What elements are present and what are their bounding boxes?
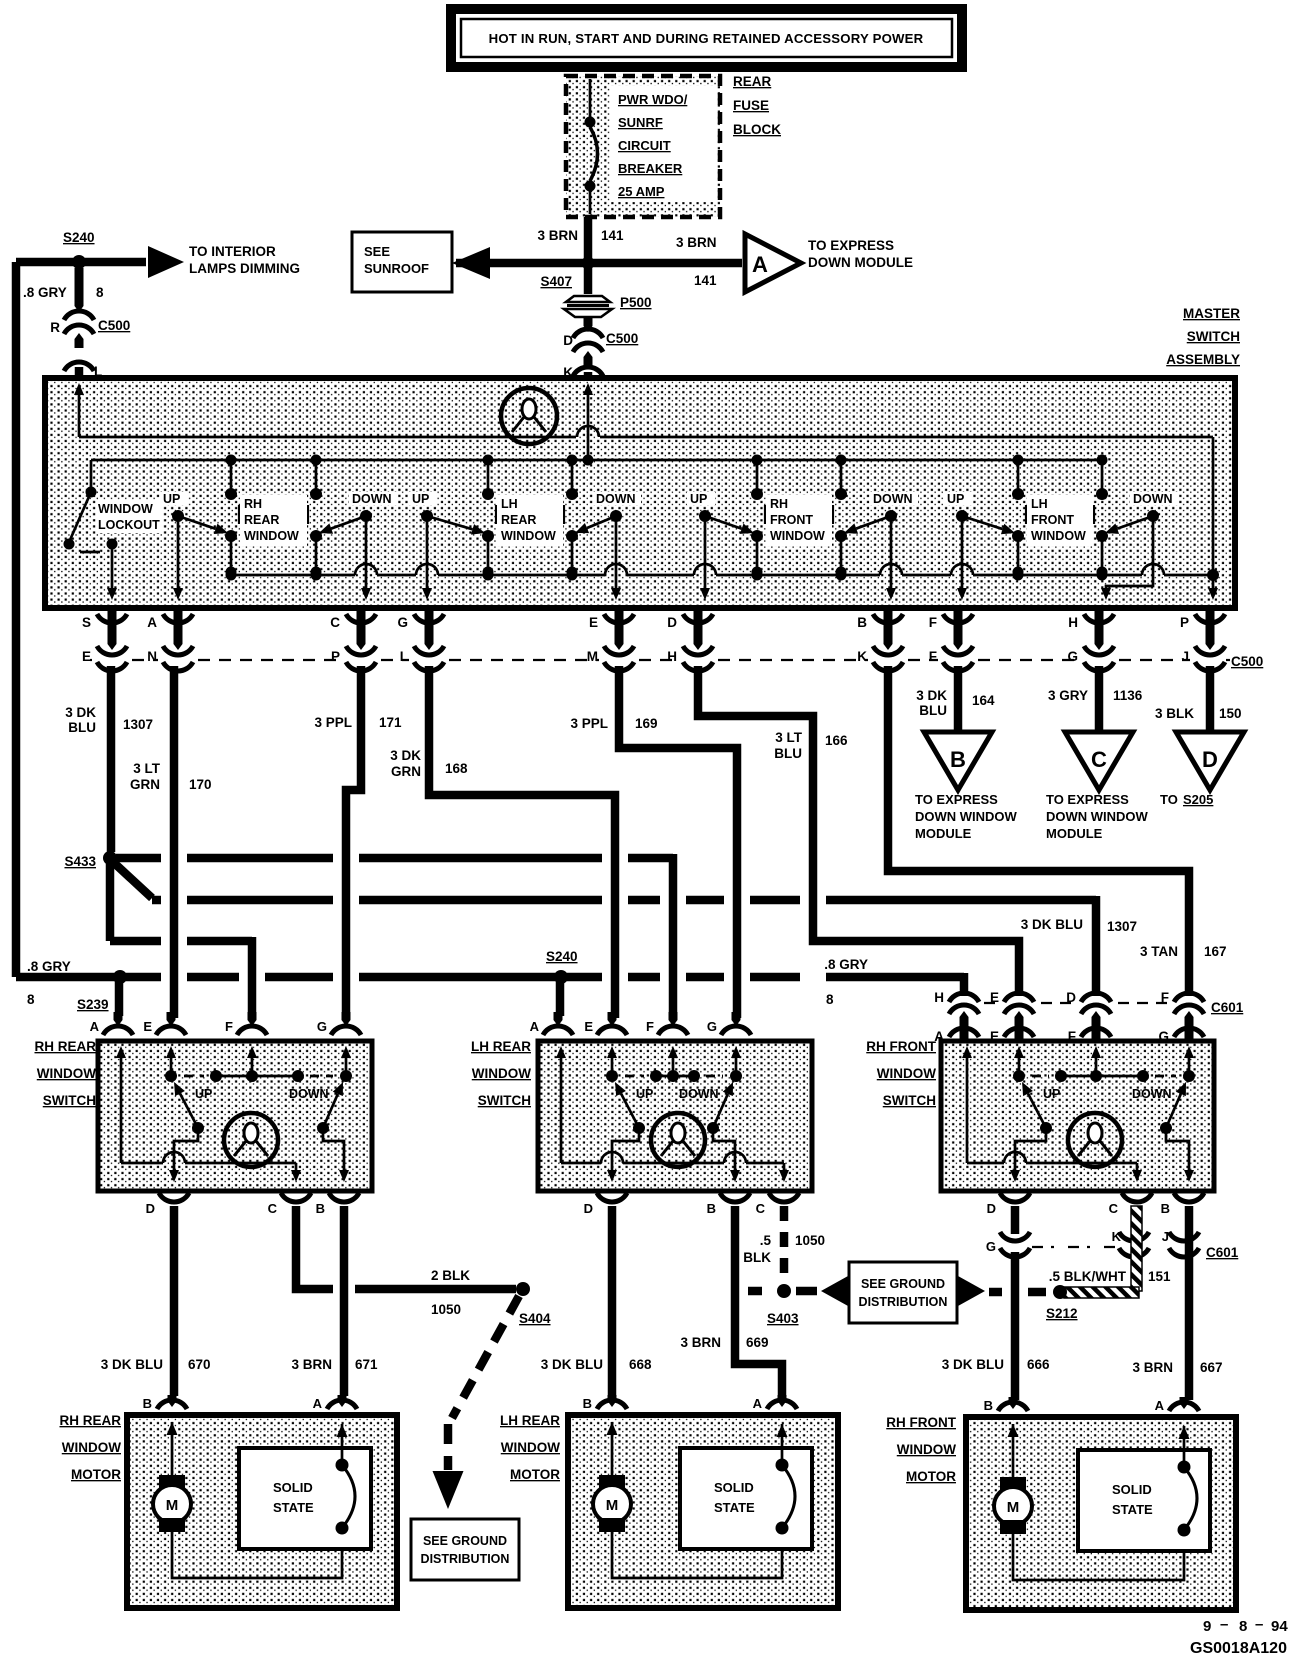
- svg-text:UP: UP: [636, 1087, 653, 1101]
- svg-text:668: 668: [629, 1357, 652, 1372]
- svg-text:3 PPL: 3 PPL: [314, 715, 352, 730]
- svg-text:E: E: [82, 649, 91, 664]
- connector triangle A: [745, 234, 801, 292]
- bus wire 4 (.8 gry ckt 8 illumination): [16, 973, 161, 982]
- svg-text:PWR WDO/: PWR WDO/: [618, 92, 688, 107]
- master switch internal: K entry wire: [587, 392, 590, 460]
- svg-text:RH: RH: [770, 497, 788, 511]
- svg-text:DOWN: DOWN: [596, 492, 636, 506]
- svg-text:3 BRN: 3 BRN: [680, 1335, 721, 1350]
- arrow to SEE SUNROOF: [452, 247, 490, 279]
- svg-text:P: P: [331, 649, 340, 664]
- svg-text:BLU: BLU: [68, 720, 96, 735]
- svg-text:S403: S403: [767, 1311, 799, 1326]
- illumination lamp master switch: [501, 388, 557, 444]
- svg-text:3 DK BLU: 3 DK BLU: [942, 1357, 1004, 1372]
- svg-text:3 DK BLU: 3 DK BLU: [1021, 917, 1083, 932]
- bus wire 3 (ckt 1307 to RH REAR switch F): [106, 862, 115, 941]
- svg-text:.8 GRY: .8 GRY: [23, 285, 67, 300]
- svg-text:3 BRN: 3 BRN: [537, 228, 578, 243]
- terminal A/N C500: [174, 610, 183, 650]
- master switch section: RH FRONT WINDOW switch: [756, 460, 759, 494]
- svg-text:MOTOR: MOTOR: [906, 1469, 956, 1484]
- svg-text:DISTRIBUTION: DISTRIBUTION: [859, 1295, 948, 1309]
- svg-text:P500: P500: [620, 295, 652, 310]
- svg-text:DOWN: DOWN: [679, 1087, 719, 1101]
- svg-text:B: B: [583, 1396, 592, 1411]
- LH REAR WINDOW solid state module: [680, 1448, 812, 1549]
- RH REAR WINDOW motor M symbol: [171, 1422, 174, 1475]
- svg-text:WINDOW: WINDOW: [244, 529, 299, 543]
- svg-text:S239: S239: [77, 997, 109, 1012]
- RH REAR WINDOW motor box: [127, 1415, 397, 1608]
- svg-text:D: D: [584, 1201, 593, 1216]
- svg-text:BREAKER: BREAKER: [618, 161, 683, 176]
- svg-text:S205: S205: [1183, 792, 1213, 807]
- svg-text:SOLID: SOLID: [714, 1480, 754, 1495]
- svg-text:3 BLK: 3 BLK: [1155, 706, 1194, 721]
- LH REAR D wire 668 dk blu: [608, 1206, 617, 1396]
- svg-text:SWITCH: SWITCH: [1187, 329, 1240, 344]
- svg-text:150: 150: [1219, 706, 1242, 721]
- svg-text:A: A: [1155, 1398, 1165, 1413]
- svg-text:E: E: [143, 1019, 152, 1034]
- svg-text:MOTOR: MOTOR: [510, 1467, 560, 1482]
- svg-text:3 BRN: 3 BRN: [676, 235, 717, 250]
- S404 dashed ground wire: [452, 1296, 519, 1418]
- terminal G/L C500: [425, 610, 434, 650]
- svg-text:D: D: [1066, 990, 1076, 1005]
- svg-text:RH: RH: [244, 497, 262, 511]
- svg-text:MODULE: MODULE: [915, 826, 972, 841]
- svg-text:UP: UP: [195, 1087, 212, 1101]
- svg-text:WINDOW: WINDOW: [770, 529, 825, 543]
- bus wire 1 (to LH REAR switch F): [116, 854, 161, 863]
- svg-text:3 DK: 3 DK: [390, 748, 421, 763]
- connector triangle C: [1065, 732, 1133, 790]
- svg-text:C: C: [1091, 747, 1107, 772]
- svg-text:B: B: [984, 1398, 993, 1413]
- svg-text:A: A: [752, 252, 768, 277]
- wire 167 tan from B: [888, 666, 1189, 996]
- svg-text:REAR: REAR: [733, 74, 772, 89]
- LH REAR C wire .5 BLK 1050 to S403: [780, 1206, 789, 1281]
- junction S407: [582, 257, 595, 270]
- svg-text:DOWN WINDOW: DOWN WINDOW: [915, 809, 1018, 824]
- svg-text:B: B: [1161, 1201, 1170, 1216]
- master switch assembly box: [45, 378, 1235, 608]
- wire 166 lt blu from D: [698, 666, 1019, 996]
- svg-text:LOCKOUT: LOCKOUT: [98, 518, 160, 532]
- svg-text:UP: UP: [1043, 1087, 1060, 1101]
- svg-text:H: H: [1068, 615, 1078, 630]
- svg-text:151: 151: [1148, 1269, 1171, 1284]
- svg-text:LAMPS DIMMING: LAMPS DIMMING: [189, 261, 300, 276]
- svg-text:D: D: [563, 333, 573, 348]
- wire 169 ppl from E: [619, 666, 737, 1018]
- svg-text:669: 669: [746, 1335, 769, 1350]
- svg-text:3 DK: 3 DK: [916, 688, 947, 703]
- RH FRONT WINDOW switch internals: [966, 1052, 969, 1163]
- C601 pin J: [1169, 1232, 1199, 1241]
- svg-text:DOWN MODULE: DOWN MODULE: [808, 255, 913, 270]
- long .8 gry wire left side: [12, 262, 21, 977]
- svg-text:DOWN: DOWN: [289, 1087, 329, 1101]
- svg-text:9: 9: [1203, 1618, 1211, 1635]
- svg-text:FRONT: FRONT: [770, 513, 813, 527]
- svg-text:RH FRONT: RH FRONT: [886, 1415, 956, 1430]
- wire 141 brn from breaker: [584, 217, 593, 263]
- svg-text:1307: 1307: [1107, 919, 1137, 934]
- svg-text:G: G: [397, 615, 408, 630]
- svg-text:TO: TO: [1160, 792, 1178, 807]
- svg-text:REAR: REAR: [244, 513, 279, 527]
- RH FRONT WINDOW terminal A: [1180, 1397, 1189, 1409]
- svg-text:WINDOW: WINDOW: [501, 1440, 560, 1455]
- svg-text:K: K: [1112, 1229, 1122, 1244]
- svg-text:S404: S404: [519, 1311, 551, 1326]
- svg-text:RH REAR: RH REAR: [34, 1039, 96, 1054]
- svg-text:DOWN WINDOW: DOWN WINDOW: [1046, 809, 1149, 824]
- C601 pin K: [1119, 1232, 1149, 1241]
- RH FRONT WINDOW solid state module: [1078, 1450, 1210, 1551]
- svg-text:GS0018A120: GS0018A120: [1190, 1640, 1287, 1657]
- svg-text:.5 BLK/WHT: .5 BLK/WHT: [1049, 1269, 1127, 1284]
- svg-text:A: A: [147, 615, 157, 630]
- svg-text:SEE GROUND: SEE GROUND: [861, 1277, 945, 1291]
- wire 1136 gry from H: [1095, 666, 1104, 730]
- svg-text:C: C: [756, 1201, 766, 1216]
- LH REAR WINDOW terminal A: [778, 1395, 787, 1407]
- RH FRONT WINDOW motor box: [966, 1417, 1236, 1610]
- terminal F/F C500: [954, 610, 963, 650]
- svg-text:3 BRN: 3 BRN: [291, 1357, 332, 1372]
- svg-text:FUSE: FUSE: [733, 98, 769, 113]
- RH FRONT WINDOW switch box: [941, 1041, 1214, 1191]
- svg-text:M: M: [1007, 1499, 1020, 1516]
- svg-text:C: C: [330, 615, 340, 630]
- svg-text:164: 164: [972, 693, 995, 708]
- wire 170 lt grn from A: [170, 666, 179, 1018]
- svg-text:WINDOW: WINDOW: [897, 1442, 956, 1457]
- svg-text:D: D: [1202, 747, 1218, 772]
- svg-text:G: G: [1067, 649, 1078, 664]
- svg-text:B: B: [707, 1201, 716, 1216]
- svg-text:UP: UP: [412, 492, 429, 506]
- svg-text:FRONT: FRONT: [1031, 513, 1074, 527]
- master switch internal: feed rail: [91, 459, 1102, 462]
- svg-text:3 DK BLU: 3 DK BLU: [541, 1357, 603, 1372]
- svg-text:1050: 1050: [431, 1302, 461, 1317]
- LH REAR WINDOW motor M symbol: [611, 1422, 614, 1475]
- svg-text:.5: .5: [760, 1233, 772, 1248]
- connector C601 upper row: [984, 1002, 1167, 1004]
- wire 168 dk grn from G: [429, 666, 615, 1018]
- svg-text:168: 168: [445, 761, 468, 776]
- svg-text:1307: 1307: [123, 717, 153, 732]
- svg-text:C500: C500: [98, 318, 130, 333]
- svg-text:WINDOW: WINDOW: [37, 1066, 96, 1081]
- svg-text:J: J: [1181, 649, 1189, 664]
- svg-text:DISTRIBUTION: DISTRIBUTION: [421, 1552, 510, 1566]
- svg-text:BLOCK: BLOCK: [733, 122, 781, 137]
- dashed ground wire to S212: [989, 1288, 1002, 1297]
- svg-text:8: 8: [1239, 1618, 1247, 1635]
- svg-text:171: 171: [379, 715, 402, 730]
- svg-text:2 BLK: 2 BLK: [431, 1268, 470, 1283]
- svg-text:LH REAR: LH REAR: [500, 1413, 560, 1428]
- svg-text:A: A: [313, 1396, 323, 1411]
- RH FRONT WINDOW motor M symbol: [1012, 1424, 1015, 1477]
- svg-text:STATE: STATE: [714, 1500, 755, 1515]
- svg-text:TO EXPRESS: TO EXPRESS: [915, 792, 998, 807]
- svg-text:F: F: [1161, 990, 1169, 1005]
- SEE GROUND DISTRIBUTION box (middle): [849, 1262, 957, 1323]
- wire 171 ppl from C: [346, 666, 361, 1018]
- svg-text:C: C: [268, 1201, 278, 1216]
- svg-text:UP: UP: [947, 492, 964, 506]
- svg-text:SUNRF: SUNRF: [618, 115, 663, 130]
- wire to express down module: [588, 259, 742, 268]
- svg-text:DOWN: DOWN: [1132, 1087, 1172, 1101]
- svg-text:DOWN: DOWN: [1133, 492, 1173, 506]
- svg-text:DOWN: DOWN: [352, 492, 392, 506]
- terminal F/G C601: [1174, 993, 1204, 1002]
- svg-text:3 BRN: 3 BRN: [1132, 1360, 1173, 1375]
- svg-text:C: C: [1109, 1201, 1119, 1216]
- svg-text:REAR: REAR: [501, 513, 536, 527]
- RH REAR WINDOW terminal B: [168, 1395, 177, 1407]
- RH REAR C wire 2 BLK 1050 to S404: [296, 1206, 333, 1289]
- svg-text:G: G: [986, 1239, 996, 1254]
- svg-text:S240: S240: [63, 230, 95, 245]
- svg-text:670: 670: [188, 1357, 211, 1372]
- master switch section: LH FRONT WINDOW switch: [1017, 460, 1020, 494]
- banner: HOT IN RUN box: [451, 9, 962, 67]
- circuit breaker symbol 25A: [589, 79, 592, 117]
- svg-text:169: 169: [635, 716, 658, 731]
- master switch section: LH REAR WINDOW switch: [487, 460, 490, 494]
- RH FRONT WINDOW terminal B: [1009, 1397, 1018, 1409]
- svg-text:C601: C601: [1211, 1000, 1244, 1015]
- master switch internal: L entry wire: [78, 392, 81, 437]
- RH REAR WINDOW terminal A: [338, 1395, 347, 1407]
- svg-text:B: B: [143, 1396, 152, 1411]
- master switch internal: top rail down to P terminal: [1212, 437, 1215, 594]
- svg-text:LH REAR: LH REAR: [471, 1039, 531, 1054]
- svg-text:UP: UP: [163, 492, 180, 506]
- svg-text:A: A: [530, 1019, 540, 1034]
- svg-text:25 AMP: 25 AMP: [618, 184, 665, 199]
- svg-text:3 DK BLU: 3 DK BLU: [101, 1357, 163, 1372]
- svg-text:8: 8: [826, 992, 834, 1007]
- connector triangle B: [924, 732, 992, 790]
- terminal B/K C500: [884, 610, 893, 650]
- svg-text:667: 667: [1200, 1360, 1223, 1375]
- terminal K arch: [573, 367, 603, 376]
- svg-text:F: F: [646, 1019, 654, 1034]
- svg-text:8: 8: [96, 285, 104, 300]
- svg-text:CIRCUIT: CIRCUIT: [618, 138, 671, 153]
- svg-text:3 LT: 3 LT: [133, 761, 161, 776]
- svg-text:MASTER: MASTER: [1183, 306, 1240, 321]
- svg-text:WINDOW: WINDOW: [877, 1066, 936, 1081]
- SEE GROUND DISTRIBUTION box (left): [411, 1519, 519, 1580]
- svg-text:A: A: [90, 1019, 100, 1034]
- wire 1307 dk blu from S: [107, 666, 116, 852]
- svg-text:3 DK: 3 DK: [65, 705, 96, 720]
- svg-text:F: F: [929, 615, 937, 630]
- svg-text:8: 8: [27, 992, 35, 1007]
- svg-text:SEE GROUND: SEE GROUND: [423, 1534, 507, 1548]
- SEE SUNROOF box: [352, 232, 452, 292]
- svg-text:RH FRONT: RH FRONT: [866, 1039, 936, 1054]
- splice S212: [1053, 1285, 1067, 1299]
- svg-text:3 TAN: 3 TAN: [1140, 944, 1178, 959]
- svg-text:E: E: [584, 1019, 593, 1034]
- master switch section: RH REAR WINDOW switch: [230, 460, 233, 494]
- splice S404: [516, 1282, 530, 1296]
- svg-text:S: S: [82, 615, 91, 630]
- svg-text:666: 666: [1027, 1357, 1050, 1372]
- svg-text:DOWN: DOWN: [873, 492, 913, 506]
- svg-text:TO INTERIOR: TO INTERIOR: [189, 244, 276, 259]
- svg-text:BLU: BLU: [774, 746, 802, 761]
- svg-text:BLU: BLU: [919, 703, 947, 718]
- svg-text:STATE: STATE: [273, 1500, 314, 1515]
- svg-text:WINDOW: WINDOW: [501, 529, 556, 543]
- svg-text:GRN: GRN: [130, 777, 160, 792]
- connector C500 master switch row: [90, 659, 92, 661]
- svg-text:D: D: [667, 615, 677, 630]
- svg-text:SWITCH: SWITCH: [478, 1093, 531, 1108]
- dashed ground wire S403: [748, 1287, 762, 1296]
- svg-text:SOLID: SOLID: [1112, 1482, 1152, 1497]
- terminal D/F C601: [1081, 993, 1111, 1002]
- terminal C/P C500: [357, 610, 366, 650]
- svg-text:3 PPL: 3 PPL: [570, 716, 608, 731]
- RH REAR WINDOW switch internals: [120, 1052, 123, 1163]
- svg-text:LH: LH: [1031, 497, 1048, 511]
- splice S239: [113, 970, 127, 984]
- connector C500 (power feed pins D/K): [573, 329, 603, 338]
- connector P500: [566, 296, 610, 302]
- svg-text:H: H: [934, 990, 944, 1005]
- svg-text:1136: 1136: [1113, 688, 1143, 703]
- svg-text:P: P: [1180, 615, 1189, 630]
- svg-text:B: B: [950, 747, 966, 772]
- svg-text:141: 141: [601, 228, 624, 243]
- svg-text:HOT IN RUN, START AND DURING R: HOT IN RUN, START AND DURING RETAINED AC…: [489, 31, 924, 46]
- LH REAR B wire 669 brn: [735, 1206, 782, 1396]
- wire to interior lamps dimming: [16, 258, 146, 267]
- svg-text:–: –: [1220, 1616, 1228, 1633]
- svg-text:141: 141: [694, 273, 717, 288]
- svg-text:STATE: STATE: [1112, 1502, 1153, 1517]
- svg-text:F: F: [929, 649, 937, 664]
- svg-text:F: F: [225, 1019, 233, 1034]
- terminal H/A C601: [949, 993, 979, 1002]
- RH REAR D wire 670 dk blu: [170, 1206, 179, 1396]
- LH REAR WINDOW motor box: [568, 1415, 838, 1608]
- splice S403: [777, 1284, 791, 1298]
- bus wire 2 (ckt 1307 to RH FRONT switch F): [152, 896, 161, 905]
- terminal E/M C500: [615, 610, 624, 650]
- RH REAR B wire 671 brn: [340, 1206, 349, 1396]
- RH FRONT D wire 666 through C601 pin G: [1011, 1206, 1020, 1234]
- svg-text:C500: C500: [606, 331, 638, 346]
- svg-text:S240: S240: [546, 949, 578, 964]
- RH FRONT C wire .5 BLK/WHT 151 hatched: [1131, 1206, 1142, 1291]
- svg-text:BLK: BLK: [743, 1250, 771, 1265]
- svg-text:K: K: [857, 649, 867, 664]
- svg-text:WINDOW: WINDOW: [98, 502, 153, 516]
- svg-text:166: 166: [825, 733, 848, 748]
- wire 164 dk blu from F: [954, 666, 963, 730]
- S433 diagonal jumper: [112, 861, 152, 898]
- svg-text:B: B: [857, 615, 867, 630]
- svg-text:M: M: [587, 649, 598, 664]
- svg-text:GRN: GRN: [391, 764, 421, 779]
- svg-text:TO EXPRESS: TO EXPRESS: [1046, 792, 1129, 807]
- rear fuse block dashed box: [566, 76, 720, 217]
- svg-text:MOTOR: MOTOR: [71, 1467, 121, 1482]
- LH REAR WINDOW terminal B: [608, 1395, 617, 1407]
- svg-text:SEE: SEE: [364, 244, 390, 259]
- RH FRONT B wire 667 brn: [1185, 1206, 1194, 1400]
- svg-text:A: A: [753, 1396, 763, 1411]
- svg-text:S407: S407: [540, 274, 572, 289]
- svg-text:SOLID: SOLID: [273, 1480, 313, 1495]
- svg-text:1050: 1050: [795, 1233, 825, 1248]
- svg-text:ASSEMBLY: ASSEMBLY: [1166, 352, 1240, 367]
- LH REAR WINDOW switch internals: [560, 1052, 563, 1163]
- svg-text:671: 671: [355, 1357, 378, 1372]
- svg-text:D: D: [987, 1201, 996, 1216]
- window lockout switch: [86, 487, 97, 498]
- svg-text:G: G: [707, 1019, 717, 1034]
- svg-text:S212: S212: [1046, 1306, 1078, 1321]
- wire 150 blk from P: [1206, 666, 1215, 730]
- master switch internal: bottom rail: [231, 574, 355, 577]
- connector triangle D: [1176, 732, 1244, 790]
- svg-text:N: N: [147, 649, 157, 664]
- svg-text:.8 GRY: .8 GRY: [824, 957, 868, 972]
- terminal D/H C500: [694, 610, 703, 650]
- connector C500 (pin R): [64, 311, 94, 320]
- svg-text:S433: S433: [64, 854, 96, 869]
- svg-text:SWITCH: SWITCH: [883, 1093, 936, 1108]
- svg-text:M: M: [166, 1497, 179, 1514]
- svg-text:SWITCH: SWITCH: [43, 1093, 96, 1108]
- svg-text:WINDOW: WINDOW: [62, 1440, 121, 1455]
- terminal E/E C601: [1004, 993, 1034, 1002]
- svg-text:3 GRY: 3 GRY: [1048, 688, 1088, 703]
- svg-text:C500: C500: [1231, 654, 1263, 669]
- svg-text:LH: LH: [501, 497, 518, 511]
- terminal P/J C500: [1206, 610, 1215, 650]
- svg-text:H: H: [667, 649, 677, 664]
- terminal L arch: [64, 362, 94, 371]
- svg-text:TO EXPRESS: TO EXPRESS: [808, 238, 894, 253]
- LH REAR WINDOW switch box: [538, 1041, 812, 1191]
- svg-text:94: 94: [1271, 1618, 1288, 1635]
- svg-text:B: B: [316, 1201, 325, 1216]
- wire to sunroof: [456, 259, 588, 268]
- svg-text:170: 170: [189, 777, 212, 792]
- wire 8 gry down to C500: [75, 268, 84, 312]
- svg-text:E: E: [990, 990, 999, 1005]
